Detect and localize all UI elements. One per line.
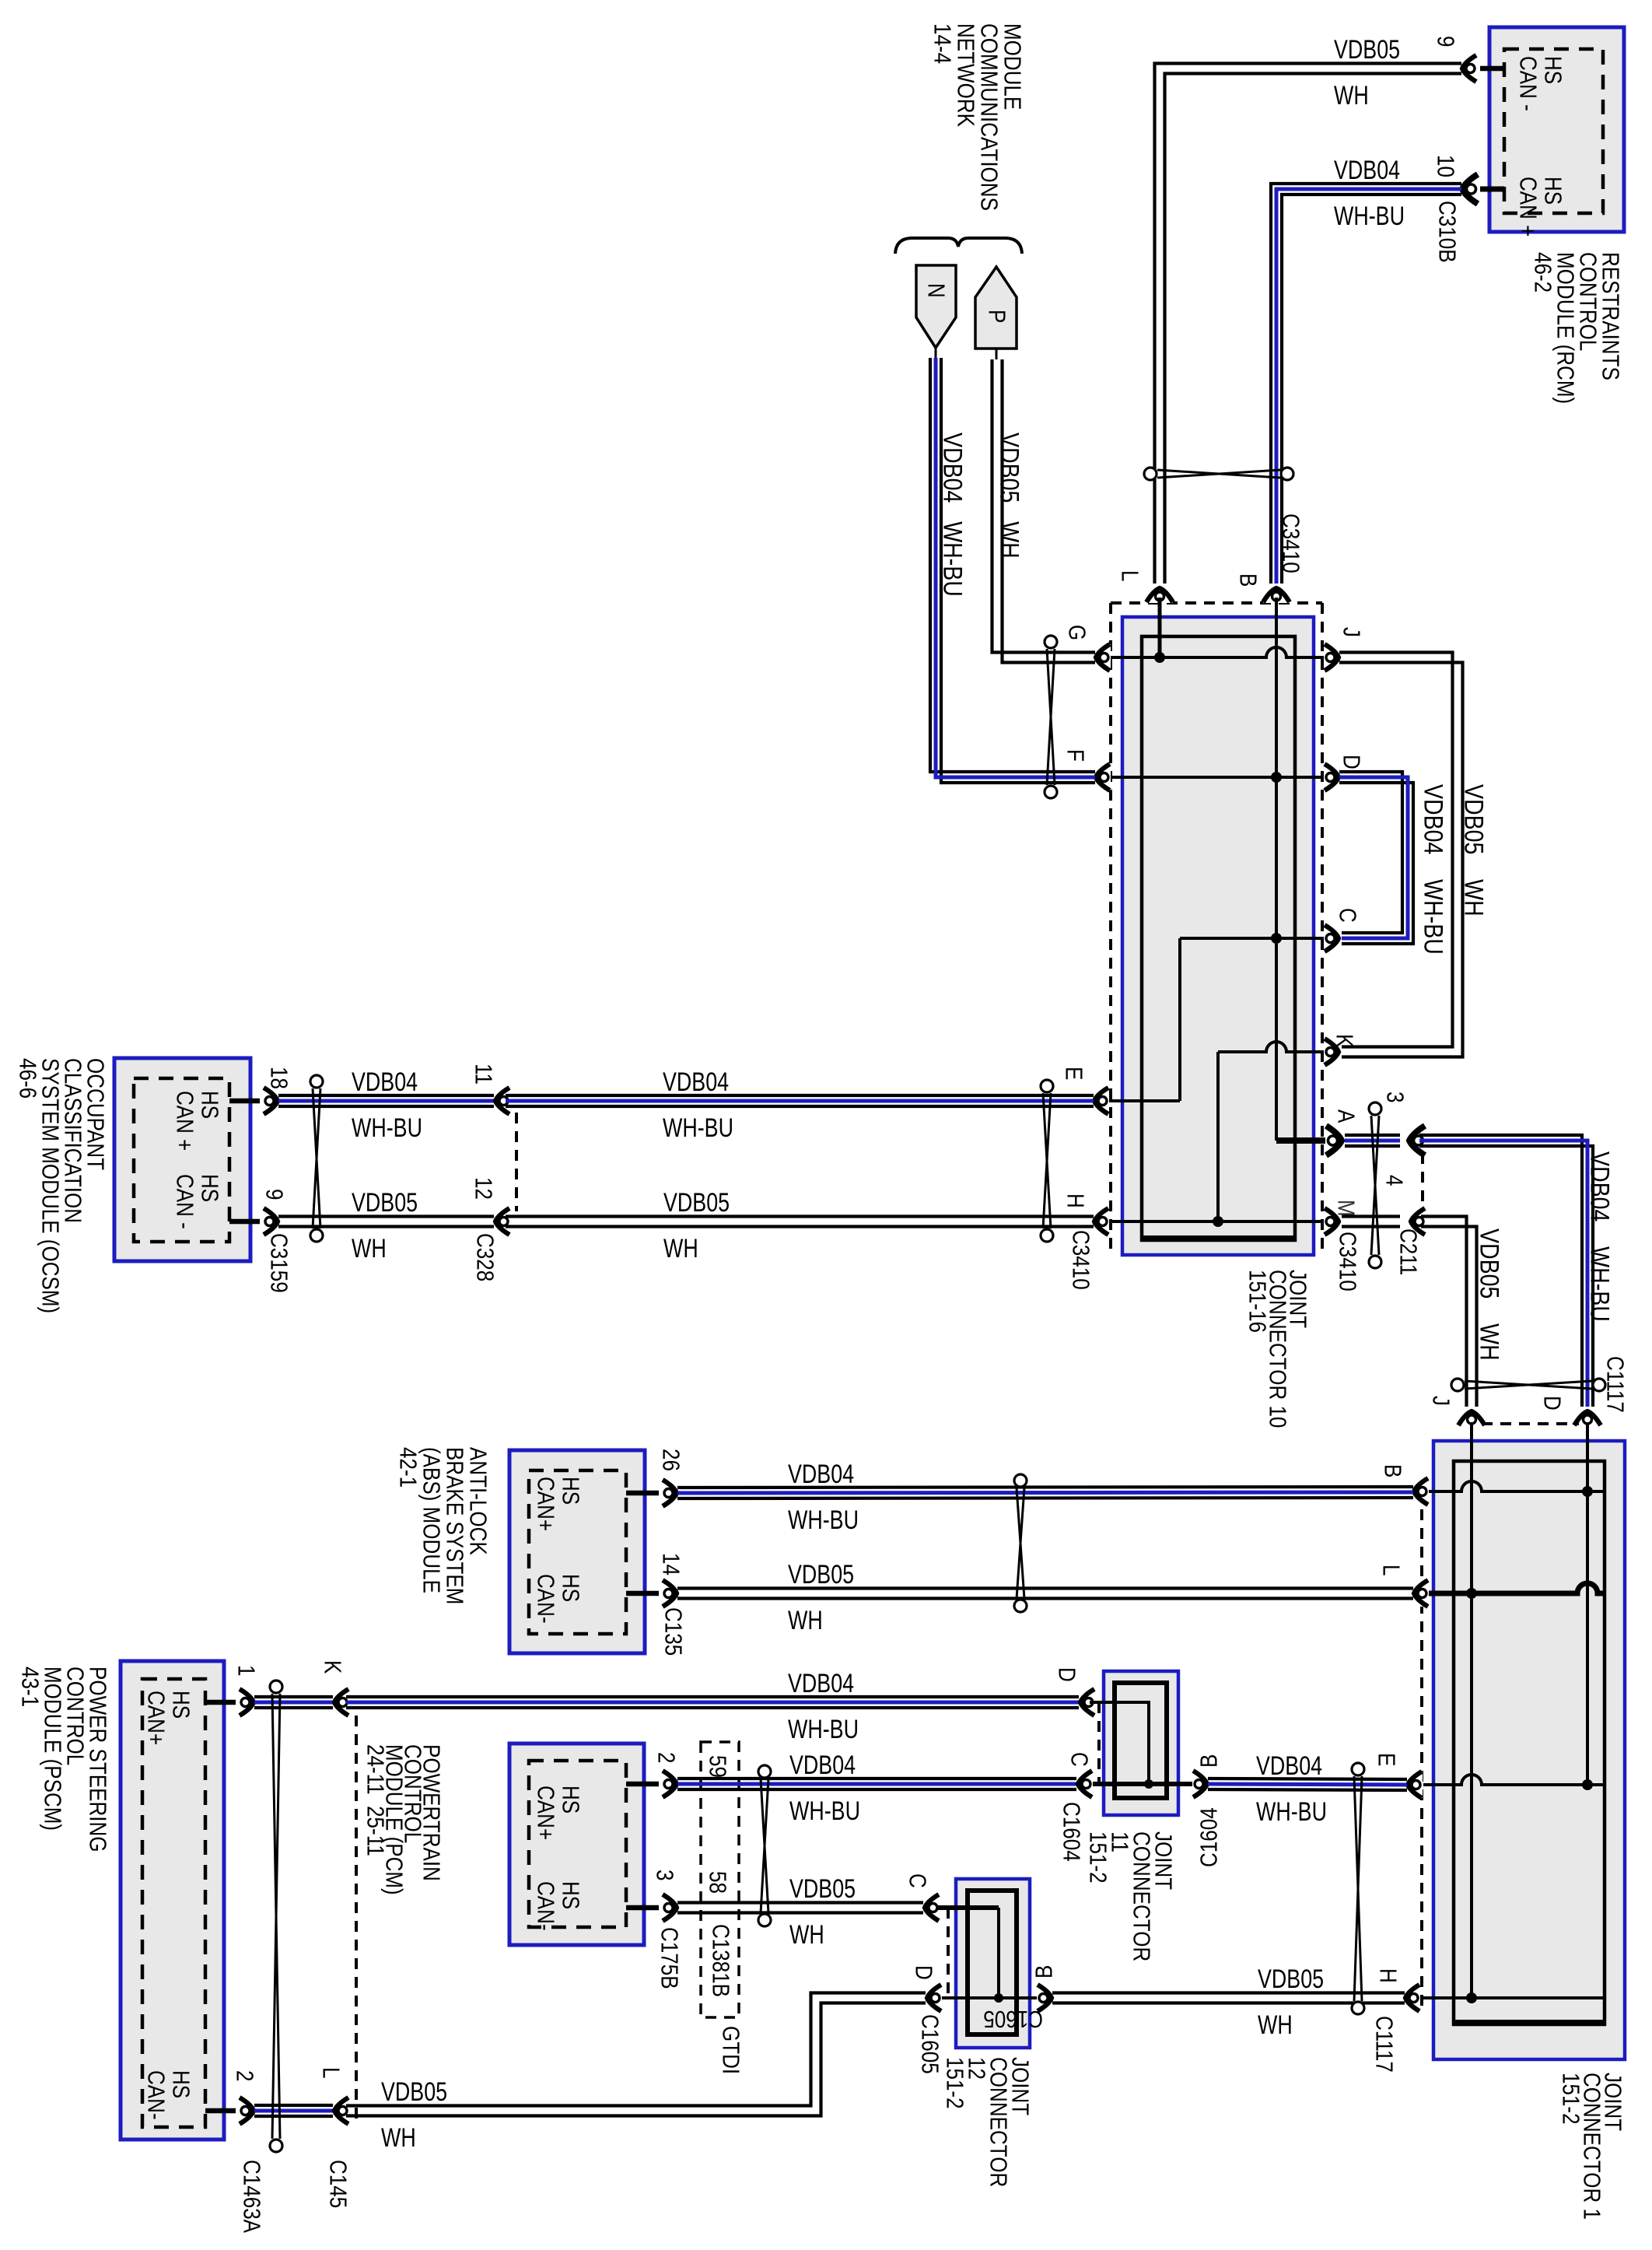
svg-text:CAN+: CAN+	[532, 1786, 559, 1840]
svg-text:58: 58	[704, 1871, 731, 1894]
JC10 right side arrows J D C K A M	[1324, 644, 1340, 671]
JC10 E internal wire	[1107, 1099, 1180, 1102]
svg-text:B: B	[1195, 1754, 1223, 1768]
JC1 E internal wire	[1423, 1775, 1605, 1785]
svg-text:C3159: C3159	[265, 1233, 292, 1293]
module PCM box	[509, 1744, 644, 1945]
svg-text:C328: C328	[471, 1233, 499, 1281]
svg-text:A: A	[1332, 1109, 1360, 1123]
svg-text:F: F	[1062, 749, 1089, 762]
JC10 C internal wire	[1180, 937, 1327, 940]
wire stub JC10 A to C211 3	[1345, 1134, 1400, 1137]
svg-text:VDB05: VDB05	[663, 1188, 730, 1218]
junction dot JC12	[994, 1993, 1003, 2003]
JC12 C-D internal wire	[997, 1908, 1000, 1998]
svg-text:HS: HS	[167, 2070, 194, 2098]
JC1 J internal wire	[1470, 1422, 1473, 1998]
JC11 C-B internal wire thick	[1088, 1782, 1197, 1786]
joint connector 10 body	[1122, 617, 1314, 1255]
twisted pair symbol PCM wires	[761, 1779, 768, 1913]
svg-text:3: 3	[1381, 1092, 1409, 1102]
ABS pin 26 stub	[626, 1491, 659, 1496]
svg-text:B: B	[1234, 573, 1262, 587]
svg-text:VDB05: VDB05	[789, 1874, 856, 1904]
C145 pin K arrow	[333, 1689, 349, 1716]
svg-text:18: 18	[265, 1067, 292, 1089]
svg-text:B: B	[1031, 1965, 1058, 1978]
wire VDB05 PSCM 2 to C145 L	[254, 2104, 334, 2107]
svg-text:VDB04 WH-BU: VDB04 WH-BU	[938, 433, 968, 597]
twisted pair symbol JC1 E H wires	[1354, 1776, 1362, 2001]
svg-text:D: D	[1338, 755, 1365, 769]
svg-text:C1117: C1117	[1601, 1356, 1629, 1413]
JC12 C internal wire thick	[938, 1905, 999, 1910]
svg-text:E: E	[1373, 1753, 1400, 1766]
JC1 B internal wire	[1426, 1481, 1605, 1491]
wire VDB05 WH C145 L to JC12 D	[346, 1993, 926, 2106]
svg-text:WH: WH	[663, 1234, 698, 1263]
svg-text:D: D	[910, 1965, 937, 1980]
JC10 A internal wire thick	[1276, 1137, 1332, 1144]
ABS pin 14 stub	[626, 1591, 659, 1596]
JC12 D-B internal wire	[937, 1996, 1041, 1999]
svg-text:2: 2	[231, 2070, 258, 2081]
svg-text:VDB04: VDB04	[788, 1460, 854, 1489]
svg-text:J: J	[1427, 1396, 1454, 1406]
svg-text:C1604: C1604	[1195, 1807, 1223, 1867]
PSCM pin 1 arrow	[239, 1689, 255, 1716]
C1605 pin B arrow	[1037, 1985, 1053, 2011]
svg-text:CAN+: CAN+	[142, 1691, 170, 1745]
svg-text:4: 4	[1381, 1175, 1408, 1186]
svg-text:VDB05: VDB05	[1334, 35, 1400, 65]
wire VDB05 WH OCSM 9 to C328 12	[278, 1214, 495, 1218]
svg-text:24-11 25-11: 24-11 25-11	[362, 1744, 389, 1856]
svg-text:VDB04: VDB04	[663, 1067, 729, 1097]
C211 dashed boundary	[1421, 1153, 1424, 1211]
svg-text:3: 3	[651, 1870, 678, 1880]
svg-text:26: 26	[657, 1449, 684, 1471]
svg-text:HS: HS	[557, 1574, 584, 1602]
svg-text:VDB04 WH-BU: VDB04 WH-BU	[1585, 1151, 1615, 1322]
offpage arrow P	[975, 267, 1017, 349]
svg-text:C1117: C1117	[1370, 2016, 1398, 2073]
JC10 K-M internal wire	[1216, 1052, 1220, 1221]
JC10 G-J internal wire	[1107, 647, 1327, 657]
C1604 pin B arrow	[1192, 1771, 1209, 1797]
JC1 D internal wire	[1586, 1422, 1589, 1786]
svg-text:HS: HS	[557, 1477, 584, 1505]
svg-text:HS: HS	[196, 1174, 223, 1202]
svg-text:46-2: 46-2	[1529, 252, 1556, 293]
wire VDB04 WH-BU ABS 26 to JC1 B	[677, 1487, 1413, 1488]
wire VDB04 WH-BU PSCM 1 to C145 K	[254, 1695, 334, 1698]
junction dot B-D	[1271, 772, 1282, 783]
svg-text:10: 10	[1432, 155, 1459, 177]
RCM pin 10 arrow	[1461, 174, 1479, 204]
svg-text:151-2: 151-2	[941, 2057, 968, 2109]
svg-text:2: 2	[653, 1752, 680, 1763]
PSCM pin 2 arrow	[239, 2098, 255, 2124]
twisted pair symbol ABS wires	[1017, 1488, 1024, 1599]
svg-text:H: H	[1374, 1968, 1402, 1983]
svg-text:C175B: C175B	[656, 1927, 683, 1989]
JC1 L internal wire thick	[1426, 1583, 1605, 1593]
wire VDB05 WH ABS 14 to JC1 L	[677, 1586, 1413, 1589]
svg-text:HS: HS	[196, 1091, 223, 1119]
svg-text:WH-BU: WH-BU	[789, 1796, 860, 1826]
PCM pin 2 arrow	[662, 1771, 678, 1797]
twisted pair symbol OCSM	[313, 1088, 320, 1228]
wire VDB05 WH JC12 B to JC1 H	[1052, 1991, 1405, 1994]
svg-text:VDB04: VDB04	[789, 1751, 856, 1780]
svg-text:VDB05 WH: VDB05 WH	[995, 433, 1024, 559]
svg-text:E: E	[1060, 1067, 1087, 1080]
RCM pin 10 stub	[1480, 187, 1504, 192]
svg-text:HS: HS	[167, 1691, 194, 1719]
wire VDB04 WH-BU from C211 3 to C1117 D	[1419, 1135, 1582, 1407]
svg-text:42-1: 42-1	[394, 1447, 422, 1488]
wire VDB05 WH PCM 3 to JC12 C	[677, 1901, 924, 1904]
C3410 pin B arrow	[1263, 587, 1290, 603]
module PSCM box	[121, 1661, 224, 2140]
svg-text:B: B	[1379, 1464, 1406, 1477]
junction dot JC11	[1144, 1779, 1153, 1789]
svg-text:46-6: 46-6	[14, 1058, 41, 1099]
svg-text:59: 59	[704, 1755, 731, 1778]
svg-text:L: L	[1116, 570, 1143, 581]
svg-text:11: 11	[470, 1064, 497, 1085]
JC11 D internal wire	[1090, 1702, 1149, 1784]
wire VDB04 WH-BU JC11 B to JC1 E	[1208, 1779, 1407, 1779]
svg-text:G: G	[1063, 625, 1090, 640]
C3410 pin L arrow	[1146, 587, 1173, 603]
twisted pair symbol C1117	[1465, 1381, 1592, 1389]
module RCM box	[1489, 27, 1624, 232]
wire stub JC10 M to C211 4	[1342, 1214, 1400, 1218]
wire VDB04 WH-BU C145 K to JC11 D	[346, 1695, 1080, 1698]
svg-text:C135: C135	[660, 1607, 687, 1656]
joint connector 12 body	[956, 1879, 1030, 2048]
svg-text:CAN-: CAN-	[142, 2070, 170, 2120]
junction dot L-G-J	[1154, 652, 1165, 663]
svg-text:43-1: 43-1	[16, 1666, 44, 1707]
svg-text:VDB04: VDB04	[788, 1669, 854, 1698]
junction dot D-E	[1582, 1779, 1593, 1790]
JC10 pin L internal stub	[1158, 598, 1162, 657]
RCM pin 9 arrow	[1461, 55, 1477, 82]
wire VDB05 WH from RCM 9 to C3410 L	[1155, 64, 1462, 584]
svg-text:WH: WH	[1258, 2010, 1293, 2040]
svg-text:HS: HS	[1539, 177, 1566, 205]
C328 dashed boundary	[515, 1113, 518, 1211]
svg-text:C3410: C3410	[1277, 513, 1304, 573]
twisted pair symbol C145	[272, 1694, 280, 2139]
C145 pin L arrow	[333, 2098, 349, 2124]
wire VDB05 WH C328 to C3410 H	[506, 1214, 1094, 1218]
svg-text:WH-BU: WH-BU	[788, 1715, 859, 1744]
svg-text:VDB05 WH: VDB05 WH	[1459, 784, 1489, 916]
svg-text:151-2: 151-2	[1084, 1831, 1111, 1884]
svg-text:14-4: 14-4	[929, 23, 956, 64]
JC10 left side arrows G F E H	[1094, 644, 1111, 671]
wire VDB04 WH-BU from RCM 10 to C3410 B	[1271, 184, 1461, 584]
svg-text:L: L	[317, 2067, 345, 2078]
OCSM pin 9 stub	[229, 1219, 260, 1225]
wire VDB04 WH-BU from N to C3410 F	[935, 348, 937, 358]
svg-text:151-2: 151-2	[1557, 2073, 1584, 2125]
JC1 H internal wire	[1423, 1996, 1605, 1999]
JC1 left arrows B L E H	[1412, 1478, 1429, 1505]
twisted pair symbol near C3410	[1043, 1093, 1051, 1228]
joint connector 1 body	[1433, 1441, 1625, 2059]
svg-text:WH-BU: WH-BU	[663, 1113, 733, 1143]
C1117 dashed boundary left	[1420, 1509, 1423, 2010]
svg-text:H: H	[1062, 1193, 1089, 1208]
svg-text:VDB04: VDB04	[352, 1067, 418, 1097]
RCM pin 9 stub	[1480, 66, 1504, 72]
svg-text:9: 9	[1432, 36, 1459, 47]
svg-text:CAN-: CAN-	[532, 1881, 559, 1931]
svg-text:VDB05 WH: VDB05 WH	[1475, 1228, 1504, 1361]
wire VDB04 WH-BU loop D to C	[1339, 772, 1402, 933]
svg-text:VDB05: VDB05	[788, 1560, 854, 1589]
wire VDB05 WH from C211 4 to C1117 J	[1421, 1217, 1467, 1407]
svg-text:D: D	[1538, 1396, 1566, 1411]
svg-text:HS: HS	[1539, 56, 1566, 84]
svg-text:VDB05: VDB05	[1258, 1964, 1324, 1994]
PCM pin 2 stub	[626, 1782, 659, 1787]
C1605 dashed boundary	[947, 1908, 950, 1998]
wire VDB04 WH-BU PCM 2 to JC11 C	[677, 1777, 1077, 1780]
svg-text:C1463A: C1463A	[238, 2160, 265, 2234]
brace	[895, 238, 1022, 254]
svg-text:P: P	[983, 310, 1010, 323]
junction dot J-L	[1466, 1588, 1477, 1599]
OCSM pin 9 arrow	[263, 1208, 279, 1235]
svg-text:VDB05: VDB05	[381, 2077, 447, 2107]
svg-text:C211: C211	[1395, 1228, 1422, 1275]
svg-text:HS: HS	[557, 1786, 584, 1814]
JC10 H-M internal wire	[1107, 1220, 1327, 1223]
module ABS box	[509, 1450, 645, 1653]
connector C1381B dashed box	[701, 1742, 739, 2017]
wire VDB04 WH-BU C328 to C3410 E	[506, 1094, 1094, 1097]
svg-text:VDB04: VDB04	[1334, 156, 1400, 185]
svg-text:WH-BU: WH-BU	[352, 1113, 422, 1143]
junction dot J-H	[1466, 1992, 1477, 2003]
C1604 pin C arrow	[1076, 1771, 1093, 1797]
svg-text:CAN+: CAN+	[532, 1477, 559, 1531]
svg-text:WH-BU: WH-BU	[788, 1505, 859, 1535]
svg-text:CAN +: CAN +	[171, 1091, 198, 1151]
C1604 dashed boundary	[1097, 1702, 1101, 1783]
JC10 B internal wire	[1275, 598, 1278, 1141]
junction dot D-B	[1582, 1486, 1593, 1497]
svg-text:C145: C145	[324, 2160, 352, 2208]
svg-text:N: N	[922, 283, 950, 298]
svg-text:HS: HS	[557, 1881, 584, 1909]
PCM pin 3 stub	[626, 1905, 659, 1911]
svg-text:M: M	[1332, 1200, 1360, 1217]
C211 pin 4 arrow	[1409, 1208, 1426, 1235]
svg-text:WH: WH	[381, 2123, 416, 2153]
svg-text:L: L	[1377, 1565, 1405, 1575]
svg-text:C1605: C1605	[983, 2005, 1043, 2032]
twisted pair symbol N P wires	[1047, 649, 1055, 785]
PCM pin 3 arrow	[662, 1894, 678, 1921]
svg-text:WH: WH	[1334, 81, 1369, 110]
svg-text:D: D	[1053, 1667, 1080, 1682]
svg-text:C1604: C1604	[1058, 1802, 1085, 1862]
svg-text:C3410: C3410	[1067, 1230, 1094, 1290]
svg-text:12: 12	[470, 1177, 497, 1200]
svg-text:VDB04: VDB04	[1256, 1751, 1322, 1781]
C1605 pin D arrow	[926, 1985, 942, 2011]
svg-text:VDB05: VDB05	[352, 1188, 418, 1218]
JC10 E-C internal wire	[1178, 938, 1181, 1101]
C1117 pin D arrow	[1574, 1410, 1601, 1426]
svg-text:J: J	[1338, 627, 1365, 637]
C1605 pin C arrow	[923, 1894, 940, 1921]
svg-text:C3410: C3410	[1334, 1232, 1361, 1291]
svg-text:C1381B: C1381B	[707, 1924, 734, 1997]
junction dot K-M-H	[1213, 1216, 1223, 1227]
svg-text:WH-BU: WH-BU	[1256, 1797, 1327, 1827]
C211 pin 3 arrow	[1408, 1126, 1426, 1155]
svg-text:K: K	[319, 1660, 346, 1673]
C1117 dashed boundary top	[1482, 1422, 1579, 1425]
svg-text:CAN -: CAN -	[1514, 56, 1542, 111]
svg-text:CAN -: CAN -	[171, 1174, 198, 1229]
svg-text:WH: WH	[788, 1606, 823, 1635]
svg-text:151-16: 151-16	[1244, 1270, 1271, 1333]
module OCSM box	[114, 1058, 250, 1261]
JC10 F-D internal wire	[1107, 776, 1327, 779]
wire VDB04 WH-BU OCSM 18 to C328 11	[278, 1094, 495, 1097]
OCSM pin 18 arrow	[263, 1088, 279, 1114]
svg-text:C1605: C1605	[916, 2014, 943, 2074]
C1117 pin J arrow	[1458, 1410, 1485, 1426]
ABS pin 26 arrow	[662, 1480, 678, 1506]
svg-text:WH-BU: WH-BU	[1334, 202, 1405, 231]
wire VDB05 WH from P to C3410 G	[996, 349, 998, 359]
svg-text:VDB04 WH-BU: VDB04 WH-BU	[1419, 784, 1448, 955]
svg-text:9: 9	[261, 1189, 288, 1200]
svg-text:WH: WH	[352, 1234, 387, 1263]
PSCM pin 1 stub	[205, 1700, 236, 1705]
JC10 K internal wire	[1218, 1042, 1327, 1052]
connector C3410 dashed boundary	[1109, 603, 1112, 1253]
twisted pair symbol C211	[1371, 1116, 1379, 1255]
OCSM pin 18 stub	[229, 1099, 260, 1104]
svg-text:WH: WH	[789, 1920, 824, 1950]
svg-text:C: C	[1066, 1752, 1093, 1767]
offpage arrow N	[916, 265, 956, 348]
C145 dashed boundary	[355, 1716, 358, 2124]
ABS pin 14 arrow	[662, 1580, 678, 1607]
svg-text:CAN-: CAN-	[532, 1574, 559, 1624]
PSCM pin 2 stub	[205, 2108, 236, 2114]
svg-text:14: 14	[657, 1553, 684, 1575]
svg-text:CAN +: CAN +	[1514, 177, 1542, 237]
svg-text:GTDI: GTDI	[717, 2026, 744, 2074]
svg-text:C: C	[904, 1873, 931, 1888]
junction dot B-C	[1271, 933, 1282, 944]
C328 pin 12 arrow	[494, 1208, 510, 1235]
C328 pin 11 arrow	[494, 1088, 510, 1114]
svg-text:C: C	[1334, 908, 1361, 923]
twisted pair symbol RCM wires	[1157, 470, 1280, 478]
C1604 pin D arrow	[1079, 1689, 1095, 1716]
joint connector 11 body	[1104, 1671, 1178, 1815]
wire VDB05 WH loop J to K	[1339, 653, 1453, 1047]
svg-text:1: 1	[233, 1665, 260, 1676]
svg-text:C310B: C310B	[1433, 201, 1461, 263]
